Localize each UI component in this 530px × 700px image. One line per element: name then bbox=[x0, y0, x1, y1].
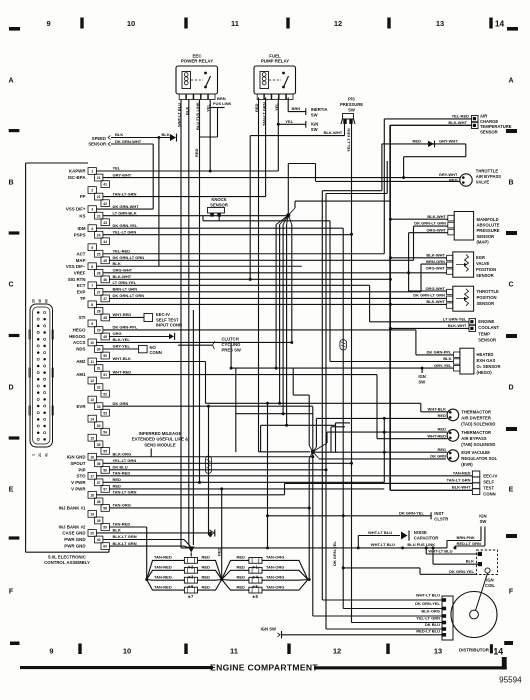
svg-text:45: 45 bbox=[103, 259, 107, 263]
svg-text:32: 32 bbox=[97, 386, 101, 390]
wire pin49 HEGOG ORG bbox=[109, 333, 174, 340]
wire pin18 TAN-LT GRN to self test connector bbox=[96, 483, 472, 494]
wire pin56 PIP DK BLU to distributor bbox=[109, 470, 442, 629]
svg-text:19: 19 bbox=[90, 513, 94, 517]
engine coolant temp sensor bbox=[443, 317, 500, 343]
wire pin47 TP DK GRN-LT GRN bbox=[109, 297, 446, 299]
svg-text:TP: TP bbox=[80, 296, 86, 301]
svg-text:GRY-WHT: GRY-WHT bbox=[439, 172, 458, 177]
wire RED from fuel pump relay bbox=[258, 98, 260, 452]
svg-text:CLUTCH: CLUTCH bbox=[222, 337, 239, 342]
svg-text:TAN-ORG: TAN-ORG bbox=[266, 555, 284, 560]
svg-text:15: 15 bbox=[90, 436, 94, 440]
svg-text:20: 20 bbox=[32, 299, 36, 303]
throttle position sensor bbox=[413, 286, 499, 311]
svg-text:IGN: IGN bbox=[418, 374, 425, 379]
svg-text:BLU FUS LINK: BLU FUS LINK bbox=[407, 542, 435, 547]
wire pin60 PWR GND BLK-LT GRN bbox=[109, 546, 190, 548]
svg-text:50: 50 bbox=[103, 354, 107, 358]
EVR solenoid bbox=[313, 418, 498, 482]
svg-text:RED: RED bbox=[113, 477, 122, 482]
svg-text:KAPWR: KAPWR bbox=[69, 169, 86, 174]
svg-text:DK GRN-LT GRN: DK GRN-LT GRN bbox=[414, 221, 446, 226]
injector bank left fan points bbox=[147, 560, 222, 590]
svg-text:10: 10 bbox=[127, 19, 135, 28]
svg-text:D: D bbox=[8, 385, 13, 392]
svg-text:COIL: COIL bbox=[485, 583, 495, 588]
inertia switch label bbox=[311, 107, 328, 118]
wire pin48 STI WHT-RED bbox=[109, 316, 144, 318]
wire BRN to inertia switch bbox=[288, 98, 306, 116]
heated exhaust gas oxygen sensor HEGO bbox=[330, 348, 500, 375]
svg-text:C: C bbox=[8, 282, 13, 289]
svg-text:DK GRN-LT GRN: DK GRN-LT GRN bbox=[413, 292, 445, 297]
svg-text:SW: SW bbox=[348, 108, 355, 113]
svg-text:AM2: AM2 bbox=[76, 359, 86, 364]
svg-text:60: 60 bbox=[45, 299, 49, 303]
svg-text:BLK: BLK bbox=[115, 132, 123, 137]
svg-text:BLK: BLK bbox=[443, 356, 451, 361]
svg-text:KS: KS bbox=[79, 213, 85, 218]
svg-text:49: 49 bbox=[103, 335, 107, 339]
wire pin22 FP TAN-LT GRN bbox=[103, 196, 266, 198]
grid letters left bbox=[8, 78, 13, 596]
wire pin7 ECT LT GRN-YEL bbox=[96, 285, 469, 322]
svg-text:PIP: PIP bbox=[78, 467, 85, 472]
svg-text:41: 41 bbox=[45, 453, 49, 457]
svg-text:13: 13 bbox=[90, 398, 94, 402]
svg-text:DK GRN-YEL: DK GRN-YEL bbox=[449, 569, 474, 574]
svg-text:RED: RED bbox=[438, 413, 447, 418]
wire pin33 EVR DK GRN bbox=[103, 405, 313, 407]
svg-text:BLK-YEL: BLK-YEL bbox=[113, 337, 131, 342]
svg-text:SW: SW bbox=[418, 379, 425, 384]
svg-text:SIG RTN: SIG RTN bbox=[68, 277, 86, 282]
svg-text:POWER RELAY: POWER RELAY bbox=[181, 59, 213, 64]
svg-text:60: 60 bbox=[103, 545, 107, 549]
svg-text:TAN-RED: TAN-RED bbox=[154, 555, 172, 560]
svg-text:38: 38 bbox=[97, 500, 101, 504]
svg-text:LT GRN-YEL: LT GRN-YEL bbox=[113, 280, 137, 285]
ECA pin boxes 1-60 bbox=[88, 168, 109, 550]
svg-text:BRN-PNK: BRN-PNK bbox=[457, 535, 476, 540]
svg-text:TAN-ORG: TAN-ORG bbox=[266, 574, 284, 579]
EEC-IV self test input connector bbox=[144, 312, 182, 327]
throttle air bypass valve bbox=[316, 168, 502, 186]
wire BLK speed sensor bbox=[111, 132, 177, 141]
wire pin20 CASE GND BLK bbox=[96, 531, 211, 534]
ign switch label top bbox=[311, 121, 318, 132]
svg-text:AIR BYPASS: AIR BYPASS bbox=[461, 436, 486, 441]
svg-text:RED: RED bbox=[237, 555, 246, 560]
svg-text:ACCS: ACCS bbox=[73, 340, 86, 345]
svg-text:(TAD) SOLENOID: (TAD) SOLENOID bbox=[461, 422, 495, 427]
ORG-WHT trunk to MAP and TP bbox=[409, 233, 448, 291]
svg-text:DK GRN-YEL: DK GRN-YEL bbox=[113, 223, 138, 228]
svg-text:14: 14 bbox=[90, 417, 94, 421]
svg-text:14: 14 bbox=[493, 646, 503, 656]
svg-text:DK BLU: DK BLU bbox=[425, 622, 440, 627]
wire pin6 VSS DIF- BLK bbox=[96, 265, 301, 267]
svg-text:YEL-LT GRN: YEL-LT GRN bbox=[113, 458, 137, 463]
wire pin58 INJ BANK 1 TAN-ORG bbox=[109, 506, 310, 509]
svg-text:SW: SW bbox=[480, 519, 487, 524]
svg-text:INERTIA: INERTIA bbox=[311, 107, 328, 112]
svg-text:9: 9 bbox=[47, 19, 51, 28]
wire BLU FUS LINK / RED from EEC relay bbox=[198, 100, 201, 484]
svg-text:41: 41 bbox=[103, 183, 107, 187]
svg-text:YEL: YEL bbox=[285, 119, 293, 124]
svg-text:WHT-LT BLU: WHT-LT BLU bbox=[428, 548, 452, 553]
P/S pressure switch bbox=[340, 97, 363, 125]
svg-text:35: 35 bbox=[97, 443, 101, 447]
wire pin59 INJ BANK 2 TAN-RED bbox=[109, 527, 148, 581]
svg-text:BLK: BLK bbox=[162, 132, 170, 137]
svg-text:TEMPERATURE: TEMPERATURE bbox=[480, 124, 512, 129]
svg-text:TAN-LT GRN: TAN-LT GRN bbox=[447, 478, 471, 483]
svg-text:30: 30 bbox=[97, 348, 101, 352]
svg-text:PSPS: PSPS bbox=[74, 232, 86, 237]
svg-text:NDS: NDS bbox=[76, 347, 85, 352]
svg-text:TAN-RED: TAN-RED bbox=[154, 565, 172, 570]
svg-text:BLK: BLK bbox=[113, 261, 121, 266]
svg-text:RED-LT BLU: RED-LT BLU bbox=[416, 628, 440, 633]
svg-text:RED: RED bbox=[237, 574, 246, 579]
svg-text:VALVE: VALVE bbox=[476, 180, 490, 185]
svg-text:ABSOLUTE: ABSOLUTE bbox=[477, 223, 500, 228]
svg-text:22: 22 bbox=[97, 195, 101, 199]
svg-text:28: 28 bbox=[97, 310, 101, 314]
EGR valve position sensor bbox=[425, 252, 496, 278]
svg-text:DK GRN-YEL: DK GRN-YEL bbox=[399, 510, 424, 515]
svg-text:47: 47 bbox=[103, 297, 107, 301]
wire DK BLU feed to distributor bbox=[325, 161, 388, 629]
svg-text:CONN: CONN bbox=[483, 492, 495, 497]
svg-text:59: 59 bbox=[103, 526, 107, 530]
svg-text:WHT-BLK: WHT-BLK bbox=[428, 406, 447, 411]
svg-text:26: 26 bbox=[97, 271, 101, 275]
svg-text:SENSOR: SENSOR bbox=[476, 273, 494, 278]
svg-text:BLK-WHT: BLK-WHT bbox=[448, 120, 467, 125]
wire YEL-LT GRN from P/S switch to PSPS bbox=[346, 124, 353, 623]
svg-text:RED-LT GRN: RED-LT GRN bbox=[457, 541, 481, 546]
speed sensor bbox=[88, 136, 110, 147]
svg-text:9: 9 bbox=[91, 322, 93, 326]
svg-text:STI: STI bbox=[79, 315, 86, 320]
grid letters right bbox=[508, 78, 513, 596]
svg-text:INST: INST bbox=[434, 511, 444, 516]
svg-text:CASE GND: CASE GND bbox=[62, 531, 85, 536]
svg-text:WHT-BLK: WHT-BLK bbox=[113, 356, 132, 361]
border ruler top bbox=[9, 18, 518, 31]
svg-text:IGN: IGN bbox=[311, 121, 318, 126]
svg-text:SENSOR: SENSOR bbox=[210, 202, 228, 207]
svg-text:TEMP: TEMP bbox=[478, 331, 490, 336]
vertical BLK-ORG junction B to distributor bbox=[311, 407, 442, 616]
svg-text:ORG-WHT: ORG-WHT bbox=[425, 266, 445, 271]
svg-text:11: 11 bbox=[90, 360, 94, 364]
svg-text:ENGINE: ENGINE bbox=[478, 319, 494, 324]
svg-text:48: 48 bbox=[103, 316, 107, 320]
svg-text:52: 52 bbox=[103, 392, 107, 396]
EEC relay wire labels bbox=[177, 102, 211, 157]
wire pin45 MAP DK GRN-LT GRN bbox=[109, 226, 413, 260]
BRN FUS LINK tap bbox=[200, 96, 232, 137]
svg-text:INJ BANK #2: INJ BANK #2 bbox=[59, 525, 86, 530]
svg-text:SENSOR: SENSOR bbox=[477, 234, 495, 239]
svg-text:(EVR): (EVR) bbox=[461, 462, 473, 467]
svg-text:TAN-RED: TAN-RED bbox=[154, 574, 172, 579]
svg-text:8: 8 bbox=[91, 303, 93, 307]
noise capacitor bbox=[357, 530, 439, 549]
svg-text:RED: RED bbox=[202, 555, 211, 560]
svg-text:D: D bbox=[508, 385, 513, 392]
svg-text:THERMACTOR: THERMACTOR bbox=[461, 409, 491, 414]
svg-text:ORG-WHT: ORG-WHT bbox=[426, 228, 446, 233]
svg-text:27: 27 bbox=[97, 290, 101, 294]
svg-text:44: 44 bbox=[103, 240, 107, 244]
svg-text:VALVE: VALVE bbox=[476, 261, 490, 266]
svg-text:RED: RED bbox=[202, 584, 211, 589]
svg-text:BRN-GRN: BRN-GRN bbox=[426, 259, 445, 264]
svg-text:TAN-RED: TAN-RED bbox=[113, 471, 131, 476]
wire pin23 KS LT GRN-BLK to knock sensor bbox=[103, 215, 289, 217]
svg-text:∗2: ∗2 bbox=[188, 564, 195, 569]
svg-text:YEL-LT GRN: YEL-LT GRN bbox=[346, 128, 351, 152]
svg-text:CAPACITOR: CAPACITOR bbox=[414, 536, 439, 541]
svg-text:42: 42 bbox=[103, 202, 107, 206]
ECA enclosure box bbox=[26, 163, 109, 552]
svg-text:WHT-RED: WHT-RED bbox=[427, 433, 446, 438]
svg-text:BLK-WHT: BLK-WHT bbox=[448, 323, 467, 328]
wire pin36 SPOUT YEL-LT GRN to distributor bbox=[103, 462, 442, 623]
svg-text:STO: STO bbox=[77, 473, 87, 478]
svg-text:55: 55 bbox=[103, 449, 107, 453]
svg-text:23: 23 bbox=[97, 214, 101, 218]
svg-text:THROTTLE: THROTTLE bbox=[476, 168, 499, 173]
svg-text:SPEED: SPEED bbox=[92, 136, 106, 141]
svg-text:BLK-WHT: BLK-WHT bbox=[113, 274, 132, 279]
svg-text:YEL-RED: YEL-RED bbox=[451, 114, 469, 119]
svg-text:24: 24 bbox=[97, 233, 101, 237]
svg-text:IGN: IGN bbox=[479, 514, 486, 519]
fuel pump relay wire labels bbox=[254, 102, 279, 126]
svg-text:ORG: ORG bbox=[113, 331, 122, 336]
svg-text:17: 17 bbox=[90, 474, 94, 478]
svg-text:THERMACTOR: THERMACTOR bbox=[461, 430, 491, 435]
svg-text:RED: RED bbox=[217, 547, 222, 556]
wire pin24 PSPS YEL-LT GRN bbox=[103, 234, 352, 236]
svg-text:58: 58 bbox=[103, 507, 107, 511]
wire TAN-LT GRN from fuel pump relay to FP bbox=[265, 98, 267, 197]
svg-text:BRN-LT GRN: BRN-LT GRN bbox=[113, 287, 138, 292]
svg-text:VREF: VREF bbox=[74, 270, 86, 275]
svg-text:∗5: ∗5 bbox=[252, 584, 259, 589]
svg-text:MAP: MAP bbox=[76, 258, 86, 263]
EEC-IV self test connector bbox=[285, 471, 498, 497]
svg-text:AIR DIVERTER: AIR DIVERTER bbox=[461, 416, 491, 421]
wire pin17 STO TAN-RED to self test connector bbox=[96, 475, 472, 477]
svg-text:PWR GND: PWR GND bbox=[64, 537, 85, 542]
svg-text:33: 33 bbox=[97, 405, 101, 409]
svg-text:INPUT CONN: INPUT CONN bbox=[156, 323, 182, 328]
svg-text:14: 14 bbox=[495, 19, 505, 29]
svg-text:EEC-IV: EEC-IV bbox=[483, 473, 497, 478]
svg-text:37: 37 bbox=[97, 481, 101, 485]
svg-text:95594: 95594 bbox=[499, 675, 522, 684]
svg-text:FUS LINK: FUS LINK bbox=[213, 101, 232, 106]
wire pin27 EVP BRN-LT GRN to EGR sensor bbox=[103, 264, 447, 292]
svg-text:18: 18 bbox=[90, 493, 94, 497]
BLK-WHT return trunk bbox=[389, 125, 473, 490]
svg-text:EXTENDED USEFUL LIFE &: EXTENDED USEFUL LIFE & bbox=[132, 437, 189, 442]
svg-text:SW: SW bbox=[311, 127, 318, 132]
wire pin37 V PWR RED bbox=[103, 481, 384, 483]
svg-text:DK GRN-YEL: DK GRN-YEL bbox=[332, 541, 337, 566]
svg-text:YEL: YEL bbox=[113, 166, 121, 171]
drawing number 95594 bbox=[499, 675, 522, 684]
MAP sensor bbox=[414, 212, 500, 245]
vertical filler wires bbox=[193, 310, 453, 545]
svg-text:ISC-BPA: ISC-BPA bbox=[68, 175, 87, 180]
svg-text:TAN-ORG: TAN-ORG bbox=[266, 565, 284, 570]
svg-text:CHARGE: CHARGE bbox=[480, 119, 498, 124]
svg-text:21: 21 bbox=[38, 453, 42, 457]
svg-text:WHT-LT BLU: WHT-LT BLU bbox=[416, 593, 440, 598]
svg-text:LT GRN-YEL: LT GRN-YEL bbox=[443, 317, 467, 322]
wire pin8 spare to TP BLK-WHT bbox=[96, 303, 390, 305]
svg-text:PRESSURE: PRESSURE bbox=[477, 228, 500, 233]
distributor wire labels bbox=[415, 593, 446, 637]
svg-text:∗7: ∗7 bbox=[188, 594, 195, 599]
svg-text:TAN-LT GRN: TAN-LT GRN bbox=[113, 490, 137, 495]
svg-text:TEST: TEST bbox=[483, 486, 494, 491]
TAB solenoid bbox=[327, 427, 495, 447]
wire DK GRN-YEL to instrument cluster bbox=[266, 228, 448, 608]
inline connector oval bbox=[206, 456, 212, 474]
svg-text:46: 46 bbox=[103, 278, 107, 282]
svg-text:∗4: ∗4 bbox=[252, 574, 259, 579]
svg-text:C: C bbox=[508, 282, 513, 289]
svg-text:DK GRN-WHT: DK GRN-WHT bbox=[115, 139, 142, 144]
svg-text:PWR GND: PWR GND bbox=[64, 544, 85, 549]
border ruler bottom bbox=[10, 641, 513, 656]
svg-text:DK GRN-PPL: DK GRN-PPL bbox=[113, 325, 138, 330]
svg-text:REGULATOR SOL: REGULATOR SOL bbox=[461, 456, 497, 461]
svg-text:WHT-LT BLU: WHT-LT BLU bbox=[371, 542, 395, 547]
svg-text:1: 1 bbox=[32, 454, 36, 456]
relay K1 EEC POWER RELAY bbox=[176, 54, 218, 100]
svg-text:TAN-RED: TAN-RED bbox=[154, 584, 172, 589]
wire DK GRN-WHT speed sensor bbox=[111, 139, 153, 209]
svg-text:TAN-ORG: TAN-ORG bbox=[113, 503, 131, 508]
svg-text:∗6: ∗6 bbox=[188, 584, 195, 589]
wire pin3 VSS DIF+ DK GRN-WHT bbox=[96, 208, 153, 210]
junction star B bbox=[236, 368, 350, 549]
wire branch A to BLK-WHT trunk bbox=[295, 200, 390, 202]
svg-text:F: F bbox=[509, 589, 514, 596]
case ground connector arrow bbox=[210, 530, 215, 537]
svg-text:BLK-ORG: BLK-ORG bbox=[421, 609, 440, 614]
svg-text:10: 10 bbox=[90, 341, 94, 345]
svg-text:WHT-LT BLU: WHT-LT BLU bbox=[368, 530, 392, 535]
svg-text:GRY-WHT: GRY-WHT bbox=[439, 139, 458, 144]
svg-text:DK GRN: DK GRN bbox=[113, 401, 129, 406]
ign switch right bbox=[447, 514, 487, 550]
svg-text:SENSOR: SENSOR bbox=[88, 142, 106, 147]
svg-text:YEL-RED: YEL-RED bbox=[113, 248, 131, 253]
wire pin57 V PWR RED bbox=[109, 487, 384, 490]
svg-text:DK GRN-WHT: DK GRN-WHT bbox=[113, 204, 140, 209]
svg-text:ACT: ACT bbox=[76, 251, 85, 256]
svg-text:RED: RED bbox=[237, 584, 246, 589]
title bar ENGINE COMPARTMENT bbox=[20, 657, 507, 672]
svg-text:7: 7 bbox=[91, 284, 93, 288]
wire knock sensor shield branch bbox=[203, 216, 330, 362]
svg-text:29: 29 bbox=[97, 329, 101, 333]
svg-text:LT GRN-BLK: LT GRN-BLK bbox=[113, 210, 137, 215]
inline connector oval 2 bbox=[340, 340, 347, 351]
svg-text:HEGO: HEGO bbox=[73, 328, 87, 333]
svg-text:RED: RED bbox=[202, 565, 211, 570]
wire stair from junction A to valve RED bbox=[288, 164, 315, 182]
svg-text:39: 39 bbox=[97, 519, 101, 523]
wire pin16 IGN GND BLK-ORG to distributor bbox=[96, 456, 313, 458]
wire DK GRN-YEL to ign coil bbox=[342, 566, 477, 574]
svg-text:WHT-RED: WHT-RED bbox=[113, 369, 132, 374]
wire WHT-LT BLU BLU FUS LINK main bbox=[181, 541, 447, 550]
clutch cycling pressure switch bbox=[178, 337, 241, 353]
svg-text:DK GRN-LT GRN: DK GRN-LT GRN bbox=[113, 255, 145, 260]
label 5.0L ELECTRONIC CONTROL ASSEMBLY bbox=[44, 555, 90, 566]
grid ticks right bbox=[506, 129, 517, 538]
no connection stub bbox=[139, 345, 162, 355]
svg-text:SENSOR: SENSOR bbox=[477, 301, 495, 306]
svg-text:RED: RED bbox=[438, 447, 447, 452]
svg-text:13: 13 bbox=[434, 647, 442, 656]
svg-text:INJ BANK #1: INJ BANK #1 bbox=[59, 506, 86, 511]
wire WHT-LT BLU to distributor bbox=[322, 191, 442, 600]
svg-text:40: 40 bbox=[38, 299, 42, 303]
svg-text:∗1: ∗1 bbox=[252, 564, 259, 569]
svg-text:25: 25 bbox=[97, 252, 101, 256]
vertical TAN-ORG to injector bank right bbox=[308, 459, 311, 582]
wire pin4 IDM DK GRN-YEL bbox=[96, 227, 343, 229]
svg-text:KNOCK: KNOCK bbox=[211, 197, 226, 202]
wire pin1 KAPWR YEL bbox=[96, 170, 278, 172]
diode loop RED GRY-WHT bbox=[382, 139, 466, 191]
wire pin30 NDS GRY-YEL bbox=[103, 348, 139, 350]
svg-text:51: 51 bbox=[103, 373, 107, 377]
svg-text:BLK-LT GRN: BLK-LT GRN bbox=[113, 541, 137, 546]
inferred mileage module label bbox=[132, 431, 189, 457]
svg-text:(MAP): (MAP) bbox=[477, 239, 490, 244]
svg-text:ORG-WHT: ORG-WHT bbox=[113, 268, 133, 273]
svg-text:(HEGO): (HEGO) bbox=[477, 370, 493, 375]
svg-text:AIR: AIR bbox=[480, 114, 487, 119]
wire pin21 ISC-BPA GRY-WHT to throttle air bypass valve bbox=[103, 176, 460, 179]
svg-text:TAN-RED: TAN-RED bbox=[453, 471, 471, 476]
svg-text:DK GRN-LT GRN: DK GRN-LT GRN bbox=[113, 293, 145, 298]
svg-text:21: 21 bbox=[97, 176, 101, 180]
svg-text:ENGINE COMPARTMENT: ENGINE COMPARTMENT bbox=[210, 662, 318, 672]
svg-text:MANIFOLD: MANIFOLD bbox=[477, 217, 499, 222]
TAD solenoid bbox=[316, 406, 495, 426]
svg-text:54: 54 bbox=[103, 430, 107, 434]
svg-text:(TAB) SOLENOID: (TAB) SOLENOID bbox=[461, 442, 495, 447]
wire YEL from fuel pump relay bbox=[277, 98, 279, 172]
svg-text:10: 10 bbox=[123, 647, 131, 656]
